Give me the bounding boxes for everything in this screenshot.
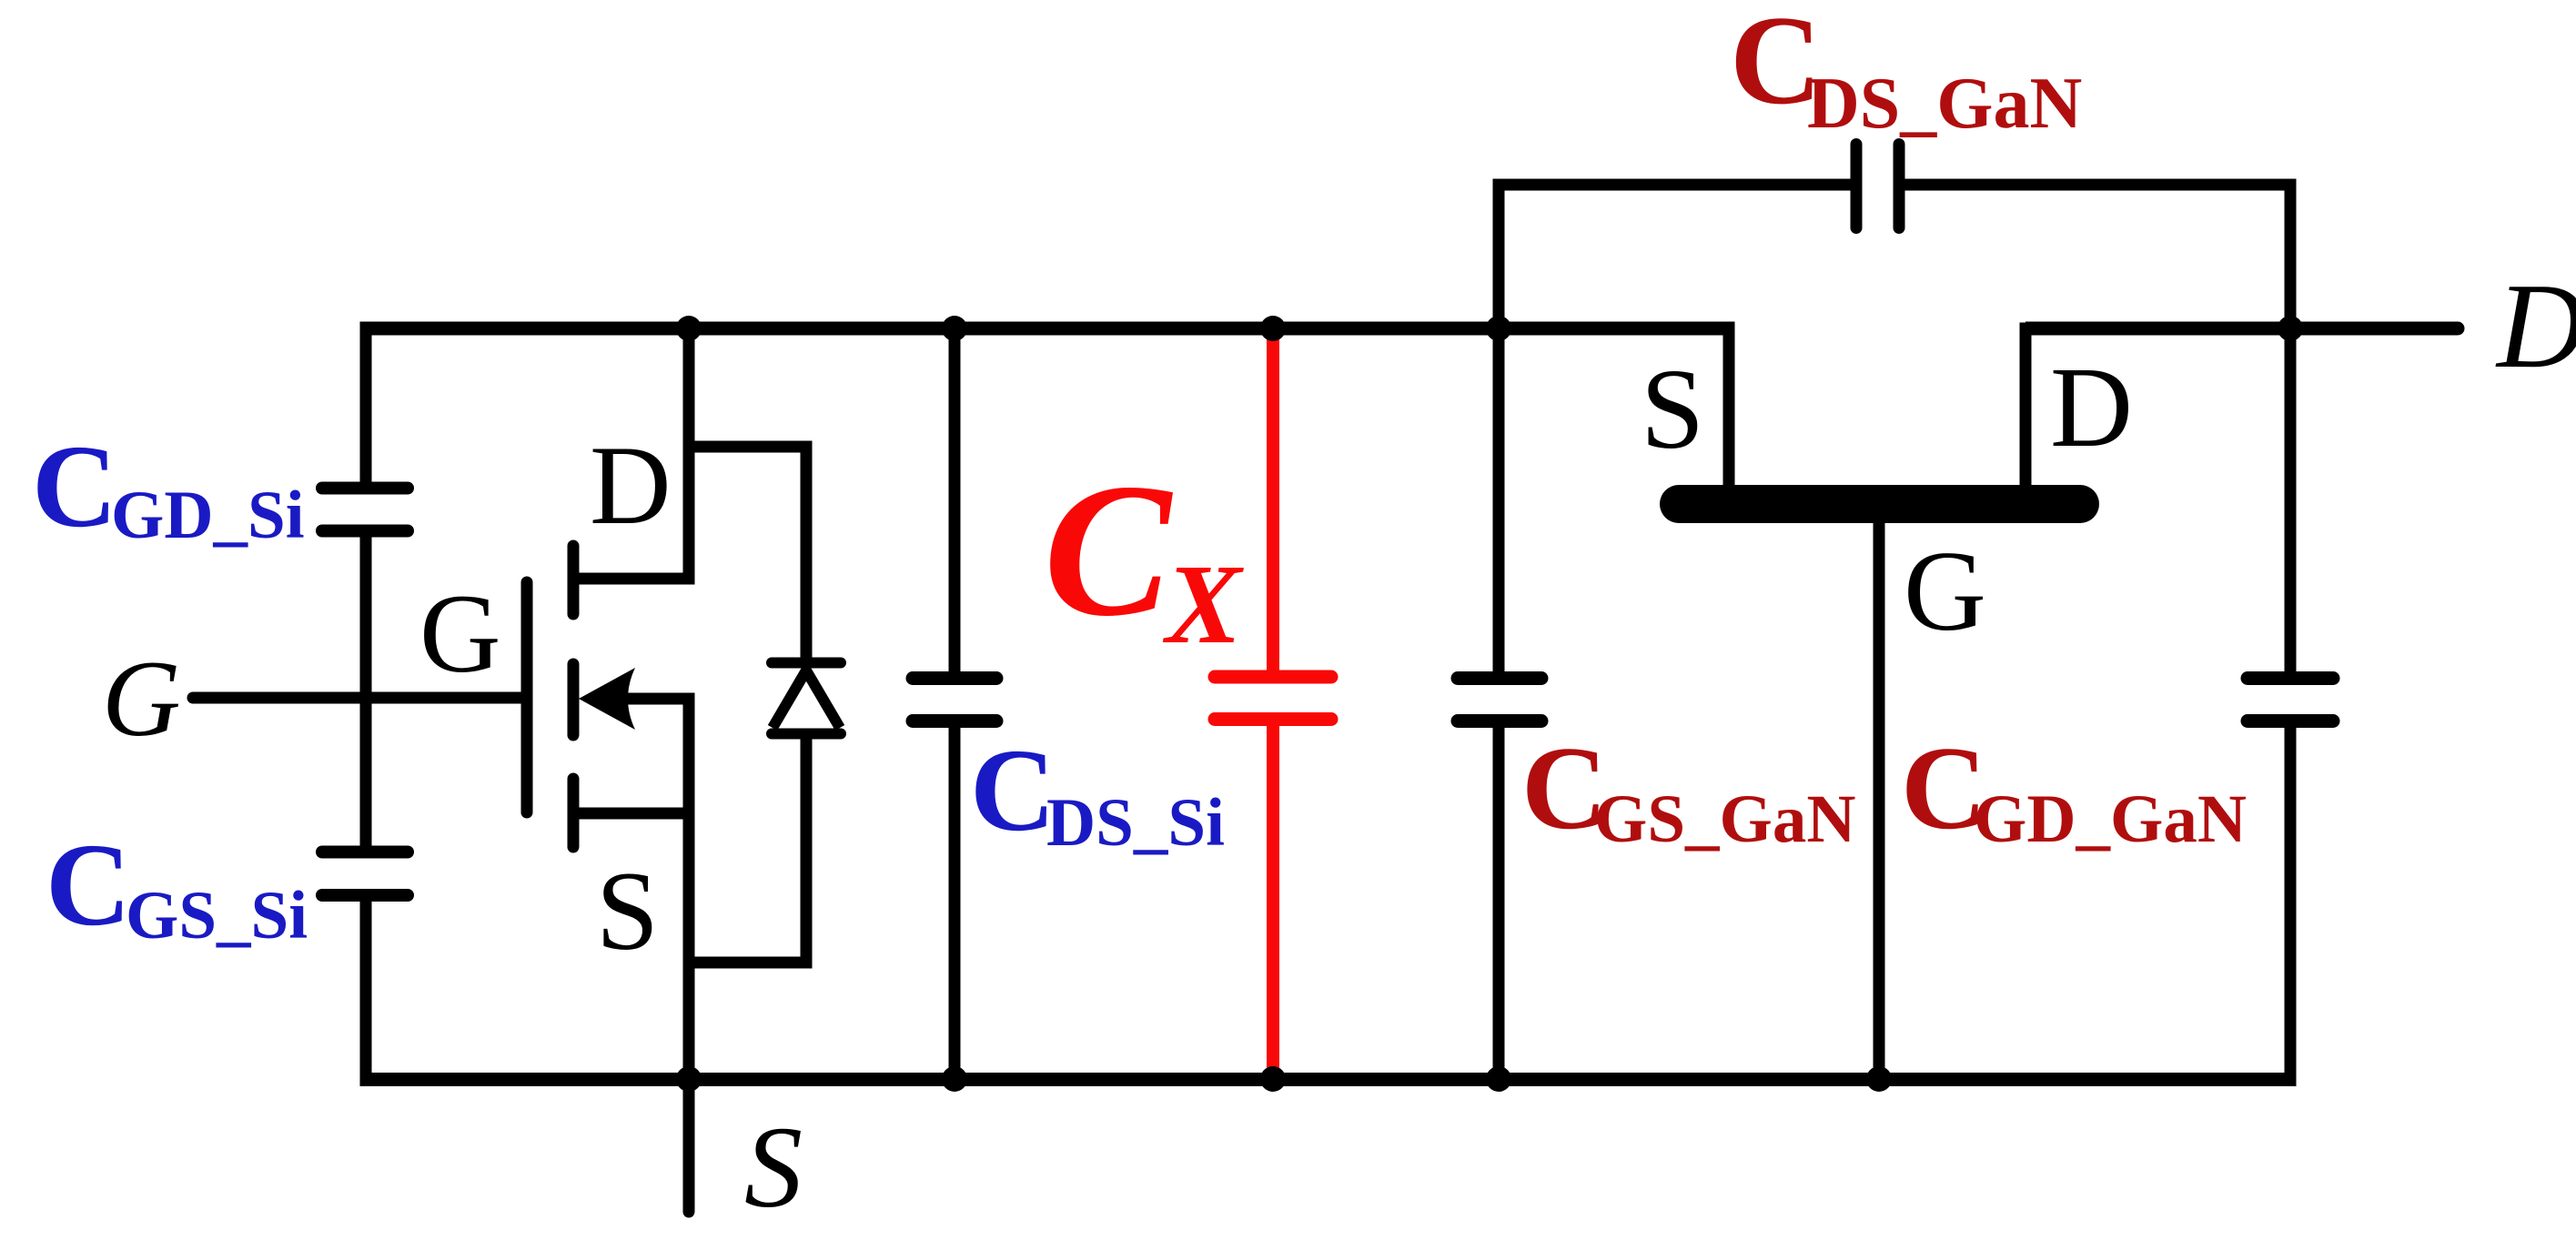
svg-text:D: D: [590, 423, 672, 548]
transistor Q1 Si MOSFET gate bar: [521, 582, 533, 812]
capacitor CX plates (red): [1215, 677, 1331, 720]
transistor Q2 GaN HEMT drain lead: [2020, 323, 2032, 503]
node: junction dots bottom rail: [676, 1066, 1892, 1092]
transistor Q2 GaN HEMT gate lead: [1874, 509, 1885, 1085]
svg-text:X: X: [1162, 542, 1244, 668]
arrow: Q1 body arrow: [579, 668, 635, 730]
capacitor C_GD_Si plates: [322, 489, 408, 531]
wire: Q1 body line and source vertical: [602, 699, 689, 1080]
wire: Q1 source lead: [573, 808, 689, 820]
wire: Q1 drain lead and vertical to bus: [573, 323, 689, 580]
transistor Q1 channel segment middle: [568, 664, 580, 735]
capacitor C_DS_Si branch lower wire: [949, 728, 961, 1085]
svg-text:DS_Si: DS_Si: [1046, 785, 1225, 861]
svg-text:GS_Si: GS_Si: [126, 878, 308, 953]
wire: C_GS_GaN branch vertical upper (also CDS_GaN loop left side): [1493, 179, 1505, 672]
wire: G terminal lead: [193, 692, 521, 704]
diode D1 cathode bar: [772, 658, 841, 669]
transistor Q2 GaN HEMT source lead: [1723, 323, 1735, 503]
transistor Q1 channel segment top: [568, 546, 580, 614]
svg-text:C: C: [1044, 445, 1174, 656]
wire: left gate branch vertical middle segment: [360, 538, 372, 847]
svg-text:D: D: [2495, 258, 2576, 393]
capacitor CX branch upper wire (red): [1267, 335, 1279, 671]
svg-text:S: S: [744, 1103, 803, 1232]
wire: C_GD_GaN branch vertical lower: [2285, 728, 2297, 1085]
svg-text:GS_GaN: GS_GaN: [1594, 781, 1856, 857]
svg-text:D: D: [2050, 345, 2133, 471]
svg-text:G: G: [419, 571, 501, 696]
svg-text:C: C: [45, 820, 131, 951]
svg-text:C: C: [970, 725, 1056, 856]
capacitor C_GD_GaN plates: [2248, 679, 2333, 721]
svg-text:S: S: [596, 849, 659, 973]
capacitor C_DS_Si branch upper wire: [949, 323, 961, 672]
wire: C_GS_GaN branch vertical lower: [1493, 728, 1505, 1085]
wire: C_DS_GaN top left wire: [1493, 179, 1851, 191]
label C_GD_Si: [32, 421, 305, 553]
wire: bottom S rail: [360, 1073, 2297, 1086]
label C_GS_Si: [45, 820, 308, 953]
capacitor C_GS_GaN plates: [1458, 679, 1541, 721]
svg-text:GD_GaN: GD_GaN: [1974, 781, 2247, 857]
wire: left gate branch vertical lower segment: [360, 902, 372, 1085]
wire: C_DS_GaN top right wire: [1905, 179, 2297, 191]
transistor Q1 channel segment bottom: [568, 779, 580, 847]
label C_GD_GaN: [1901, 722, 2247, 857]
svg-text:S: S: [1641, 347, 1704, 473]
label C_DS_GaN: [1730, 0, 2082, 144]
capacitor CX branch lower wire (red): [1267, 726, 1279, 1074]
node: junction dots top bus: [676, 316, 2303, 341]
wire: top D-bus right segment (GaN drain net to D terminal): [2025, 322, 2458, 336]
svg-text:G: G: [102, 638, 181, 759]
capacitor C_DS_Si plates: [913, 679, 996, 721]
wire: diode bottom jog: [683, 732, 807, 963]
label CX (red): [1044, 445, 1244, 668]
svg-text:DS_GaN: DS_GaN: [1807, 64, 2082, 144]
svg-text:C: C: [32, 421, 117, 552]
transistor Q2 GaN HEMT channel bar: [1679, 485, 2080, 523]
svg-text:GD_Si: GD_Si: [111, 478, 305, 553]
wire: diode top jog: [683, 447, 807, 658]
wire: left gate branch vertical upper segment: [360, 323, 372, 483]
capacitor C_DS_GaN plates: [1856, 145, 1899, 228]
wire: S terminal stub: [683, 1079, 695, 1212]
wire: top D-bus left segment (Si drain / GaN source net): [360, 322, 1735, 336]
label C_DS_Si: [970, 725, 1225, 861]
diode D1 triangle: [773, 670, 840, 728]
capacitor C_GS_Si plates: [322, 852, 408, 896]
wire: right vertical upper (CDS_GaN loop right side): [2285, 179, 2297, 672]
svg-text:G: G: [1904, 529, 1986, 655]
label C_GS_GaN: [1521, 722, 1856, 857]
